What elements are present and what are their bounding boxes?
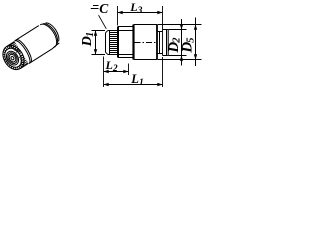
chamfer bars — [91, 6, 99, 9]
release collar top edge — [157, 31, 163, 33]
svg-text:C: C — [99, 1, 109, 16]
body front shoulder arc — [15, 39, 33, 64]
D1 section bottom edge through nut — [108, 54, 133, 56]
front face rim — [0, 41, 28, 73]
body bottom edge — [134, 59, 158, 61]
rear silhouette under rings — [53, 43, 60, 48]
nut outer top edge — [118, 26, 133, 28]
L1 right extension line — [162, 57, 164, 87]
nut front face (thick) — [117, 27, 119, 58]
D5 arrow up — [194, 25, 197, 30]
D2 arrow up onto bottom edge — [180, 56, 183, 61]
rear collar rings — [40, 21, 60, 47]
centerline — [135, 42, 157, 44]
L2 dimension line — [104, 71, 129, 73]
knurl axial lines — [110, 33, 118, 53]
L1 arrow right — [157, 83, 162, 86]
body rear face (thick) — [156, 25, 158, 60]
body top edge — [134, 24, 158, 26]
body front face (thick) — [132, 25, 134, 60]
release collar bottom edge — [157, 53, 163, 55]
L1 dimension line — [104, 84, 163, 86]
front face edge — [1, 45, 24, 70]
isometric illustration of push-in fitting — [0, 19, 63, 74]
D5 arrow down — [194, 54, 197, 59]
D1 arrow down — [94, 49, 97, 54]
chamfer leader line — [99, 15, 107, 29]
L3 left extension line — [117, 6, 119, 26]
L3 arrow right — [157, 11, 162, 14]
D2 dimension line — [181, 19, 183, 66]
front rim knurl ticks — [0, 41, 29, 73]
knurled collar D1 section: left face — [105, 33, 107, 52]
D1 arrow up — [94, 31, 97, 36]
cap top edge — [163, 29, 168, 31]
D5 dimension line — [195, 18, 197, 67]
knurled drum silhouette — [7, 41, 29, 68]
front face inner rings — [4, 49, 21, 67]
D5 bottom extension line — [158, 59, 202, 61]
D2 top extension line — [168, 29, 186, 31]
D1 top extension line — [92, 30, 106, 32]
D1 dimension line — [95, 31, 97, 55]
knurl lines on drum — [8, 42, 28, 67]
cap inner ring — [166, 30, 168, 56]
L1 L2 left extension line — [103, 57, 105, 88]
chamfer bottom — [106, 52, 108, 54]
L3 dimension line — [118, 12, 163, 14]
D1 bottom extension line — [92, 54, 106, 56]
chamfer top — [106, 31, 108, 33]
orthographic view — [106, 6, 169, 60]
body shoulder second arc — [16, 38, 34, 63]
D1 section top edge through nut — [108, 30, 133, 32]
knurl boundary vertical — [109, 31, 111, 55]
nut outer bottom edge — [118, 57, 133, 59]
cap left edge + L3 extension line — [162, 6, 164, 56]
L2 arrow left — [104, 70, 109, 73]
L1 arrow left — [104, 83, 109, 86]
body silhouette — [15, 26, 53, 64]
D5 top extension line — [158, 24, 202, 26]
cap bottom edge — [163, 55, 168, 57]
D2 bottom extension line — [168, 55, 186, 57]
collar ring line — [159, 32, 161, 54]
L2 arrow right — [123, 70, 128, 73]
D2 arrow down onto top edge — [180, 24, 183, 29]
cap right end — [167, 30, 169, 56]
L3 arrow left — [118, 11, 123, 14]
L2 right extension line — [128, 64, 130, 76]
